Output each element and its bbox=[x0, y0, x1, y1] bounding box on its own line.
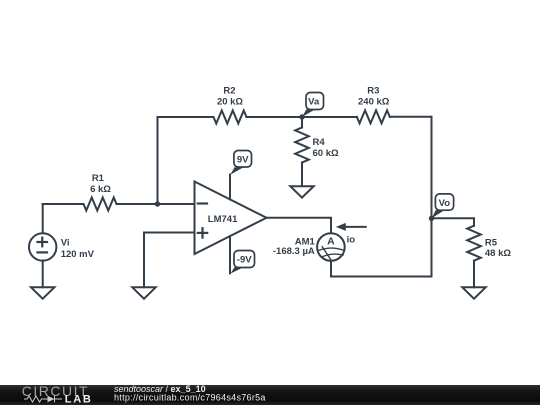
svg-text:48 kΩ: 48 kΩ bbox=[485, 248, 511, 259]
svg-text:240 kΩ: 240 kΩ bbox=[358, 97, 390, 108]
svg-text:io: io bbox=[347, 234, 356, 245]
svg-text:LAB: LAB bbox=[65, 394, 93, 405]
svg-text:Vi: Vi bbox=[61, 238, 70, 249]
svg-text:http://circuitlab.com/c7964s4s: http://circuitlab.com/c7964s4s76r5a bbox=[114, 393, 266, 403]
svg-text:-9V: -9V bbox=[237, 255, 252, 266]
svg-text:R4: R4 bbox=[313, 137, 326, 148]
svg-text:R3: R3 bbox=[367, 86, 379, 97]
svg-text:A: A bbox=[327, 236, 335, 248]
svg-text:20 kΩ: 20 kΩ bbox=[217, 97, 243, 108]
svg-text:6 kΩ: 6 kΩ bbox=[90, 184, 111, 195]
svg-text:R5: R5 bbox=[485, 237, 498, 248]
svg-text:60 kΩ: 60 kΩ bbox=[313, 148, 339, 159]
svg-text:120 mV: 120 mV bbox=[61, 249, 95, 260]
svg-text:9V: 9V bbox=[237, 154, 249, 165]
svg-text:R2: R2 bbox=[223, 86, 235, 97]
svg-text:Vo: Vo bbox=[439, 198, 451, 209]
svg-text:-168.3 µA: -168.3 µA bbox=[273, 246, 315, 257]
svg-text:LM741: LM741 bbox=[208, 214, 238, 225]
svg-text:Va: Va bbox=[308, 97, 320, 108]
svg-text:R1: R1 bbox=[92, 173, 105, 184]
